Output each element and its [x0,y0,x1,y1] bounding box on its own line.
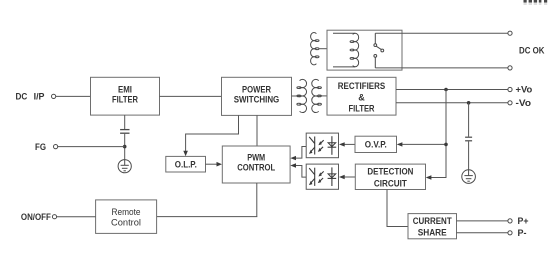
wire PWM control to remote bus [256,183,258,217]
wire -Vo to output capacitor [468,103,470,137]
earth ground FG [118,160,131,173]
svg-text:FG: FG [35,142,46,152]
terminal -Vo [508,98,532,108]
terminal DC OK plus [508,31,512,35]
PWM control box [222,146,290,183]
terminal DC I/P [16,92,56,102]
wire detection circuit to current share [387,190,408,227]
wire relay to DC OK minus terminal [375,67,508,69]
svg-text:O.V.P.: O.V.P. [365,140,387,150]
terminal FG [35,142,58,152]
wire sense to detection circuit [426,175,447,179]
svg-text:POWER: POWER [242,85,271,95]
svg-text:FILTER: FILTER [349,104,375,114]
svg-text:SWITCHING: SWITCHING [234,95,280,105]
terminal ON/OFF [21,212,57,222]
terminal DC OK minus [508,66,512,70]
wire aux winding to relay box [320,48,328,50]
wire power switching to PWM control [256,115,258,146]
arrow into PWM left [217,162,223,167]
wire relay to DC OK plus terminal [375,32,508,34]
auxiliary winding for DC OK relay [311,32,319,64]
wire remote control to PWM [157,216,258,218]
OVP box [355,136,397,152]
wire +Vo sense down [445,90,447,178]
wire current share to P+ [457,220,509,222]
EMI filter box [91,77,160,115]
wire power switching to OLP [186,115,239,152]
wire ON/OFF terminal to remote control [56,216,95,218]
wire OVP to optocoupler 1 [339,142,355,146]
wire EMI filter to Y-capacitor [124,115,126,129]
svg-text:DC: DC [16,92,28,102]
svg-text:Control: Control [111,217,141,227]
OLP box [166,156,206,172]
wire current share to P- [457,232,509,234]
svg-text:DETECTION: DETECTION [367,167,413,177]
transformer T1 primary winding [297,79,307,112]
svg-text:P-: P- [518,228,527,238]
wire optocoupler 1 to PWM [290,147,306,161]
junction -Vo sense [467,101,471,105]
wire capacitor to output earth [468,141,470,170]
wire +Vo sense to OVP [397,142,446,146]
junction FG node [123,145,127,149]
wire optocoupler 2 to PWM [290,163,306,177]
svg-text:SHARE: SHARE [418,228,447,238]
wire power switching to transformer primary [292,95,301,97]
Y-capacitor [120,130,129,134]
earth ground output [462,170,476,184]
remote control box [96,200,157,234]
wire -Vo rail [396,102,508,104]
wire FG terminal to node [58,146,125,148]
svg-text:PWM: PWM [247,153,265,163]
wire detection to optocoupler 2 [339,175,355,179]
output capacitor [465,137,472,141]
optocoupler PC2 [306,164,338,189]
clipped document number top right [524,0,548,3]
relay coil winding [333,33,359,67]
svg-text:P+: P+ [518,216,529,226]
DC OK relay box [327,30,402,70]
svg-text:+Vo: +Vo [516,85,533,95]
svg-text:Remote: Remote [112,207,141,217]
optocoupler PC1 [306,133,338,158]
junction OVP tee [444,143,448,147]
svg-text:DC OK: DC OK [519,45,545,55]
wire DC input to EMI filter [56,95,91,97]
wire EMI filter to power switching [160,95,222,97]
wire OLP to PWM control [206,163,217,165]
relay contact [374,33,384,68]
svg-text:-Vo: -Vo [516,98,532,108]
rectifiers and filter box [327,77,396,115]
power switching box [222,77,292,115]
svg-text:O.L.P.: O.L.P. [175,160,197,170]
svg-text:CONTROL: CONTROL [237,163,275,173]
svg-text:ON/OFF: ON/OFF [21,212,51,222]
detection circuit box [355,164,425,189]
terminal P- [508,228,527,238]
transformer T1 secondary winding [312,79,322,112]
svg-text:EMI: EMI [118,85,132,95]
arrow into OLP [183,151,188,157]
svg-text:I/P: I/P [34,92,45,102]
svg-text:&: & [358,92,365,102]
svg-text:RECTIFIERS: RECTIFIERS [338,81,385,91]
svg-text:CIRCUIT: CIRCUIT [374,178,407,188]
current share box [408,214,457,239]
junction +Vo sense [444,88,448,92]
svg-text:FILTER: FILTER [112,95,138,105]
terminal P+ [508,216,529,226]
terminal +Vo [508,85,533,95]
wire transformer secondary to rectifiers [319,95,327,97]
wire capacitor to FG earth [124,134,126,160]
svg-text:CURRENT: CURRENT [413,216,452,226]
wire +Vo rail [396,89,508,91]
